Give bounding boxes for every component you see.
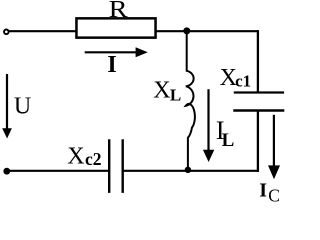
svg-text:X: X	[67, 143, 84, 169]
svg-text:I: I	[107, 52, 116, 78]
svg-text:L: L	[170, 86, 181, 105]
svg-text:L: L	[222, 130, 235, 151]
svg-text:R: R	[109, 0, 128, 23]
svg-text:I: I	[259, 180, 267, 202]
svg-text:X: X	[153, 77, 170, 103]
svg-text:c1: c1	[235, 72, 251, 91]
svg-text:C: C	[268, 186, 280, 205]
svg-text:U: U	[14, 94, 31, 120]
svg-text:c2: c2	[85, 149, 102, 169]
